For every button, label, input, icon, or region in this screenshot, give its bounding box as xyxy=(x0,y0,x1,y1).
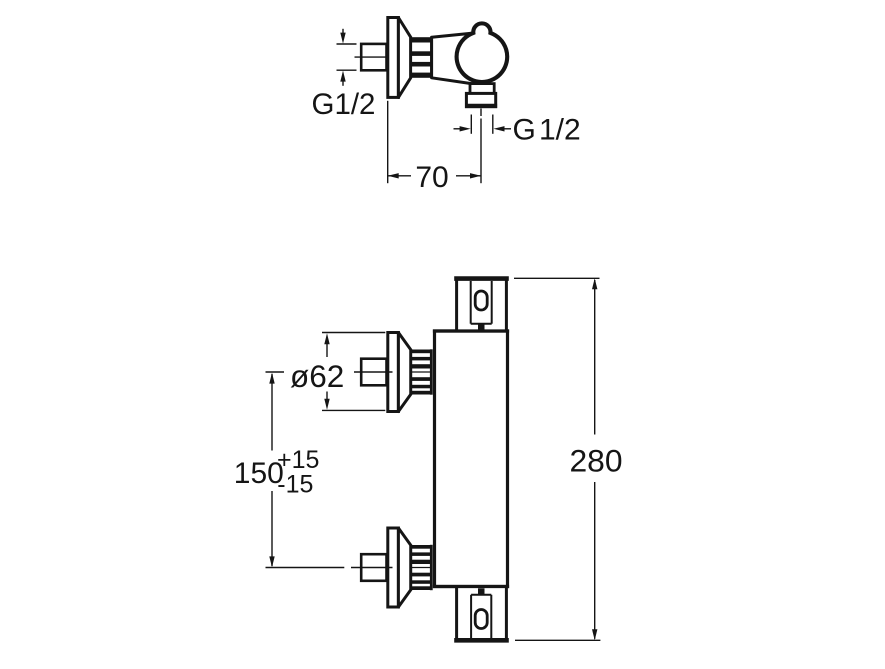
svg-text:G1/2: G1/2 xyxy=(312,88,376,121)
svg-text:-15: -15 xyxy=(277,470,313,498)
svg-text:ø62: ø62 xyxy=(290,358,344,394)
svg-text:70: 70 xyxy=(415,161,448,194)
svg-text:G: G xyxy=(513,114,536,147)
svg-text:1/2: 1/2 xyxy=(539,114,581,147)
svg-text:280: 280 xyxy=(570,443,623,479)
